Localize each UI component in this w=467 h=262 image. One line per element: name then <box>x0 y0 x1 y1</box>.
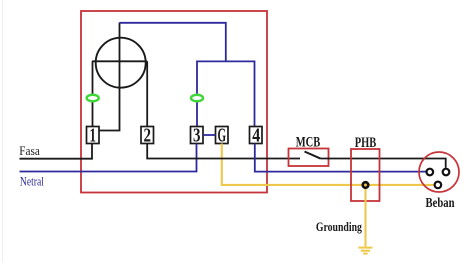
wire: vertical through meter down to bend <box>99 23 120 131</box>
svg-text:1: 1 <box>90 126 97 147</box>
socket pin right <box>443 169 450 176</box>
MCB switch blade <box>305 152 321 159</box>
meter disc M (circle with cross) <box>96 38 146 88</box>
coil indicator (green ellipse, right) <box>191 95 203 102</box>
svg-text:Grounding: Grounding <box>316 220 363 234</box>
wire: ground wire from terminal G <box>222 144 434 185</box>
terminal 2 <box>141 127 154 144</box>
svg-text:MCB: MCB <box>296 135 321 151</box>
terminal 1 <box>87 127 100 144</box>
junction node in PHB <box>363 182 369 188</box>
wire: blue link terminal 3 to G <box>203 134 216 136</box>
terminal G <box>216 127 229 144</box>
wire: Netral output from terminal 4 to load socket <box>255 144 426 172</box>
svg-text:Netral: Netral <box>20 173 44 188</box>
ground symbol <box>358 248 372 254</box>
PHB box <box>351 149 380 201</box>
wire: Netral input to terminal 3 <box>20 144 197 172</box>
svg-text:Beban: Beban <box>426 195 455 210</box>
socket pin left <box>427 169 434 176</box>
wire: left coil wire to terminal 1 <box>92 61 94 126</box>
wire: Fasa from MCB to load socket <box>321 159 446 168</box>
wire: right chord wire down to terminal 2 <box>146 61 148 126</box>
svg-text:4: 4 <box>252 126 260 147</box>
wire: blue feeder from meter top <box>120 23 226 62</box>
wire: Fasa input to terminal 1 <box>20 144 93 159</box>
load socket outline (Beban) <box>419 152 459 192</box>
svg-text:3: 3 <box>193 126 201 147</box>
terminal 4 <box>250 127 263 144</box>
MCB box <box>289 149 329 167</box>
kWh meter enclosure box <box>81 11 267 193</box>
socket pin bottom <box>435 182 442 189</box>
wire: blue bridge over terminals 3 and 4 <box>197 61 255 126</box>
terminal 3 <box>191 127 204 144</box>
svg-text:Fasa: Fasa <box>19 143 40 158</box>
coil indicator (green ellipse, left) <box>87 95 99 102</box>
svg-text:PHB: PHB <box>355 135 377 151</box>
svg-text:G: G <box>218 126 227 147</box>
wire: Fasa output from terminal 2 to MCB <box>147 144 300 159</box>
wire: grounding drop <box>364 185 366 247</box>
svg-text:2: 2 <box>144 126 152 147</box>
wire: horizontal chord through meter <box>92 60 147 62</box>
faint scan artifact line <box>2 0 4 262</box>
